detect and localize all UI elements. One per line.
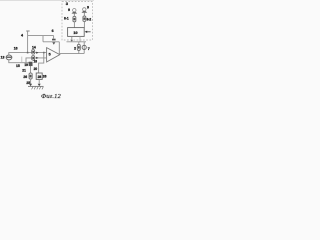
svg-text:18: 18 [34, 60, 38, 64]
svg-text:15: 15 [16, 64, 20, 68]
svg-text:20: 20 [34, 67, 38, 71]
svg-text:14: 14 [32, 45, 36, 49]
svg-text:16: 16 [14, 46, 18, 50]
svg-text:26: 26 [43, 75, 47, 79]
svg-text:2: 2 [74, 46, 76, 50]
svg-text:28: 28 [38, 75, 42, 79]
svg-text:6: 6 [52, 29, 54, 33]
svg-text:9: 9 [68, 8, 70, 12]
svg-text:10: 10 [73, 30, 78, 35]
svg-text:13: 13 [1, 56, 5, 60]
svg-text:7: 7 [88, 47, 90, 51]
svg-text:Фиг.12: Фиг.12 [41, 93, 62, 100]
svg-text:9: 9 [87, 6, 89, 10]
svg-text:8-1: 8-1 [64, 17, 69, 21]
svg-text:21: 21 [22, 68, 26, 72]
svg-text:26: 26 [23, 75, 27, 79]
svg-text:5: 5 [49, 53, 51, 57]
svg-text:4: 4 [21, 33, 23, 37]
svg-text:3: 3 [66, 1, 69, 6]
svg-text:19: 19 [24, 63, 28, 67]
svg-text:8-2: 8-2 [87, 17, 92, 21]
